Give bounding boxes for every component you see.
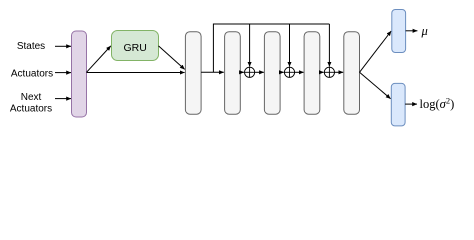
MLP layer 1 (gray) — [185, 32, 201, 115]
svg-text:Actuators: Actuators — [11, 68, 53, 79]
arrow to mu label — [406, 30, 418, 32]
svg-text:Next: Next — [21, 92, 42, 103]
arrow layer3 to sum2 — [280, 71, 284, 73]
arrow States input — [55, 45, 71, 47]
sum node 3 — [324, 67, 334, 77]
input concat block (purple) — [72, 31, 87, 117]
arrow layer1 to layer2 — [201, 71, 224, 73]
skip drop to sum3 — [328, 24, 330, 67]
arrow sum1 to layer3 — [255, 71, 264, 73]
arrow layer2 to sum1 — [240, 71, 244, 73]
arrow concat to layer1 — [87, 72, 185, 74]
skip drop to sum2 — [289, 24, 291, 67]
arrow Actuators input — [55, 72, 71, 74]
MLP layer 2 (gray) — [225, 32, 241, 115]
arrow concat to GRU — [87, 46, 111, 72]
svg-text:GRU: GRU — [124, 42, 147, 54]
arrow layer4 to sum3 — [320, 71, 324, 73]
arrow GRU to layer1 — [159, 46, 185, 70]
GRU box (green) — [112, 31, 159, 61]
sum node 1 — [245, 67, 255, 77]
svg-text:μ: μ — [421, 24, 428, 38]
skip connection trunk — [213, 24, 329, 72]
arrow to logvar label — [405, 103, 417, 105]
sum node 2 — [284, 67, 294, 77]
arrow layer5 to logvar head — [360, 72, 391, 98]
arrow Next Actuators input — [55, 98, 71, 100]
svg-text:Actuators: Actuators — [10, 104, 52, 115]
MLP layer 5 (gray) — [344, 32, 360, 115]
mu output box (blue) — [392, 10, 406, 53]
skip drop to sum1 — [249, 24, 251, 67]
MLP layer 4 (gray) — [304, 32, 320, 115]
arrow sum2 to layer4 — [295, 71, 304, 73]
svg-text:States: States — [17, 41, 45, 52]
MLP layer 3 (gray) — [264, 32, 280, 115]
arrow layer5 to mu head — [360, 31, 392, 72]
arrow sum3 to layer5 — [335, 71, 344, 73]
label Next Actuators — [10, 92, 52, 115]
logvar output box (blue) — [391, 83, 405, 126]
